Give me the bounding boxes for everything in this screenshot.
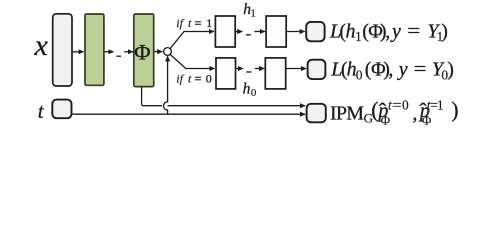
representation layer Phi (green) xyxy=(134,14,154,87)
svg-text:,: , xyxy=(385,20,390,42)
t input box xyxy=(52,100,71,119)
h1 hidden layer box B xyxy=(266,16,286,47)
svg-text:0: 0 xyxy=(356,67,363,82)
svg-text:1: 1 xyxy=(355,29,362,44)
svg-text:=: = xyxy=(414,59,427,81)
svg-text:0: 0 xyxy=(251,87,257,99)
wire rep layer 1 to Phi (with ellipsis dash) xyxy=(105,51,114,53)
wire segment 2 into Phi xyxy=(124,51,133,53)
loss node L0 (rounded box) xyxy=(308,60,326,79)
svg-text:=: = xyxy=(195,16,202,30)
wire t up to switch (white casing for hop) xyxy=(164,102,168,110)
svg-text:1: 1 xyxy=(206,16,212,30)
switch node (circle) xyxy=(164,48,172,56)
svg-text:Φ: Φ xyxy=(422,113,432,128)
svg-text:y: y xyxy=(390,20,401,42)
h0 hidden layer box D xyxy=(265,58,285,89)
svg-text:h: h xyxy=(346,20,356,42)
wire boxD to loss L0 xyxy=(286,68,306,70)
wire boxC to boxD xyxy=(236,68,243,70)
svg-text:): ) xyxy=(447,59,454,81)
svg-text:IPM: IPM xyxy=(330,102,364,124)
branch wire if t=1 xyxy=(170,32,214,49)
svg-text:Φ: Φ xyxy=(134,40,150,65)
svg-text:1: 1 xyxy=(250,8,256,20)
svg-text:,: , xyxy=(412,102,417,124)
svg-text:=: = xyxy=(407,20,420,42)
wire Phi to switch node xyxy=(155,51,163,53)
svg-text:x: x xyxy=(34,29,49,62)
branch wire if t=0 xyxy=(170,54,215,68)
representation layer 1 (green) xyxy=(85,14,104,85)
svg-text:,: , xyxy=(388,59,393,81)
svg-text:): ) xyxy=(451,97,458,122)
svg-text:1: 1 xyxy=(437,97,444,112)
ellipsis dash xyxy=(116,55,121,57)
wire t to IPM xyxy=(72,113,305,115)
input layer box xyxy=(53,14,72,86)
svg-text:0: 0 xyxy=(402,97,409,112)
svg-text:=: = xyxy=(392,97,402,112)
wire boxB to loss L1 xyxy=(287,31,305,33)
wire into boxB xyxy=(254,31,265,33)
svg-text:y: y xyxy=(397,59,408,81)
svg-text:): ) xyxy=(441,20,448,42)
IPM node (rounded box) xyxy=(307,104,326,123)
h1 hidden layer box A xyxy=(215,16,235,47)
wire Phi down to IPM xyxy=(142,87,306,106)
loss node L1 (rounded box) xyxy=(306,22,324,41)
wire boxA to boxB xyxy=(236,31,242,33)
svg-text:0: 0 xyxy=(206,71,212,85)
svg-text:=: = xyxy=(195,71,202,85)
wire t up to switch (with hop over Phi wire) xyxy=(164,56,168,114)
wire into boxD xyxy=(255,68,264,70)
svg-text:h: h xyxy=(243,81,251,98)
ellipsis dash h0 xyxy=(246,71,251,73)
ellipsis dash h1 xyxy=(246,34,251,36)
h0 hidden layer box C xyxy=(216,58,236,89)
svg-text:Φ: Φ xyxy=(381,113,391,128)
wire input to rep layer 1 xyxy=(73,51,84,53)
